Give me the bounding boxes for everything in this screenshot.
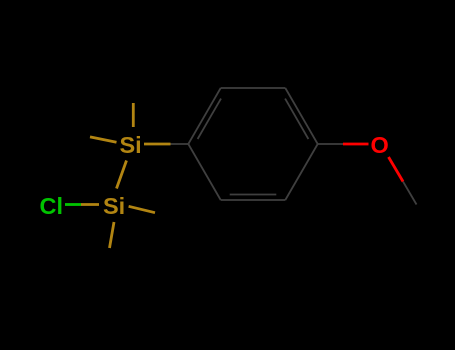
red half of C(ring)-O bond	[343, 143, 369, 146]
wire green half of Cl-Si2 bond	[65, 203, 81, 206]
ring edge TR-R	[285, 88, 317, 144]
benzene ring C1-C6	[171, 88, 417, 205]
svg-text:Si: Si	[120, 132, 142, 158]
wire olive half of Cl-Si2 bond	[81, 203, 99, 206]
wire Si1 methyl left	[90, 137, 117, 142]
ring edge L-TL	[188, 88, 220, 144]
red half of O-CH3 bond	[389, 157, 404, 182]
ring edge TL-TR	[221, 87, 286, 89]
ring edge BR-BL	[221, 199, 286, 201]
svg-text:Cl: Cl	[40, 193, 64, 219]
svg-text:O: O	[371, 132, 389, 158]
svg-text:Si: Si	[103, 193, 125, 219]
wire Si1 methyl up	[132, 103, 135, 127]
wire olive half of Si1-C(ring) bond	[144, 143, 171, 146]
ring edge BL-L	[188, 144, 220, 200]
double bond inner line BR-BL	[230, 194, 277, 196]
wire Si1-Si2 bond	[117, 161, 127, 189]
double bond inner line TR-R	[285, 99, 308, 139]
wire gray half of Si-C(ring) bond	[171, 143, 189, 145]
ring edge R-BR	[285, 144, 317, 200]
wire gray half of O-CH3 bond	[403, 182, 417, 205]
double bond inner line L-TL	[198, 99, 221, 139]
wire gray half of C(ring)-O bond	[318, 143, 343, 145]
wire Si2 methyl down	[110, 222, 115, 248]
wire Si2 methyl right	[129, 206, 155, 212]
